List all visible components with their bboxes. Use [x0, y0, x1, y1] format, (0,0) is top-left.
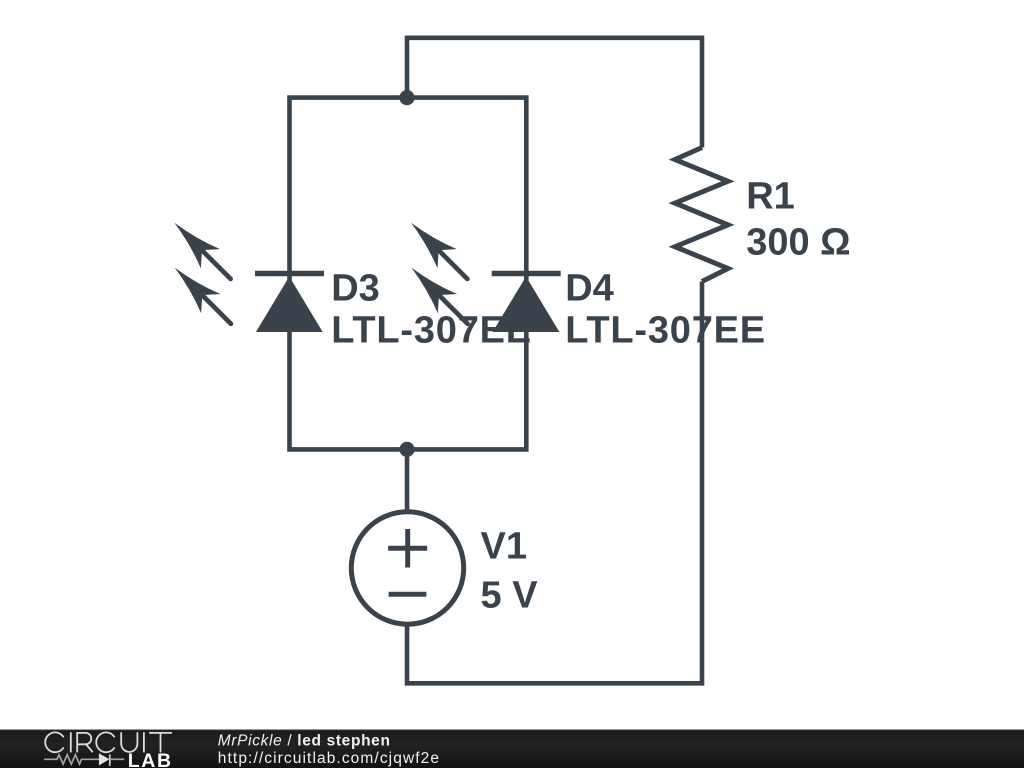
CircuitLab logo: schematic doodle (resistor + diode) — [44, 753, 124, 766]
svg-text:5 V: 5 V — [481, 575, 539, 617]
wire: node A up and over to R1 top — [407, 38, 702, 148]
svg-text:D3: D3 — [331, 268, 380, 310]
resistor R1 — [675, 148, 728, 282]
wire: right LED loop (node A to D4 branch to bottom node) — [407, 98, 526, 450]
voltage source V1 — [351, 512, 463, 624]
LED D3 (diode symbol with light arrows) — [165, 213, 324, 333]
svg-text:300 Ω: 300 Ω — [746, 222, 850, 264]
wire: left LED loop (node A to D3 branch to bottom node) — [290, 98, 408, 450]
svg-text:R1: R1 — [746, 176, 795, 218]
wire: bottom node to V1 plus terminal — [405, 449, 410, 510]
svg-text:http://circuitlab.com/cjqwf2e: http://circuitlab.com/cjqwf2e — [218, 750, 440, 767]
bottom node junction dot — [399, 442, 414, 457]
svg-text:LTL-307EE: LTL-307EE — [565, 309, 766, 351]
footer bar — [0, 730, 1024, 768]
LED D4 (diode symbol with light arrows) — [401, 213, 560, 333]
svg-text:MrPickle / led stephen: MrPickle / led stephen — [218, 732, 391, 749]
svg-text:V1: V1 — [481, 526, 527, 568]
node A junction dot — [399, 90, 414, 105]
svg-text:LAB: LAB — [128, 750, 173, 768]
wire: V1 minus terminal to R1 bottom — [407, 282, 702, 684]
CircuitLab logo: CIRCUIT wordmark (thin single-stroke letters) — [45, 732, 171, 752]
svg-text:D4: D4 — [565, 268, 614, 310]
